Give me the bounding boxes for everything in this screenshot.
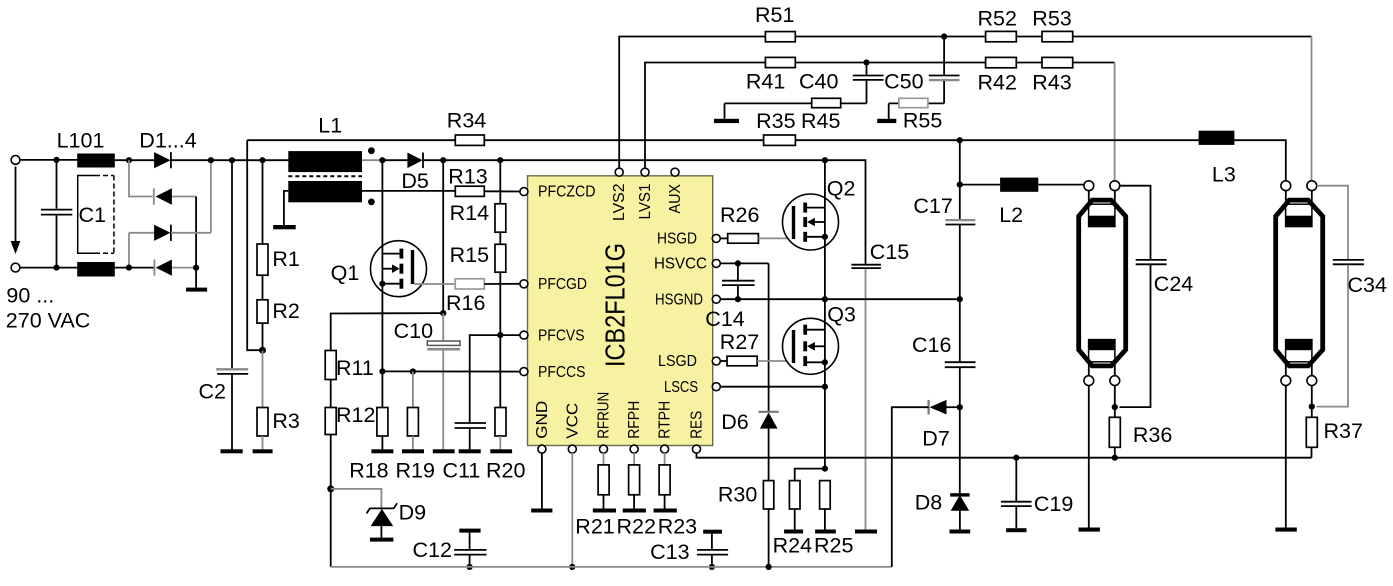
label L101 [57, 129, 105, 153]
svg-text:R1: R1 [272, 247, 299, 271]
svg-text:R22: R22 [617, 514, 656, 538]
svg-text:RES: RES [689, 411, 706, 439]
wire R53 to lamp2 [1311, 37, 1313, 181]
svg-text:L101: L101 [57, 129, 105, 153]
pin HSVCC [654, 256, 720, 273]
resistor R20 [486, 335, 525, 482]
svg-text:D8: D8 [915, 490, 943, 514]
ground R3 [253, 449, 273, 453]
lamp LA2 pins [1281, 181, 1317, 386]
svg-text:HSVCC: HSVCC [654, 256, 707, 273]
wire top rail input [20, 159, 78, 161]
svg-text:LVS1: LVS1 [637, 183, 654, 219]
wire bridge top [115, 159, 154, 161]
svg-text:C19: C19 [1034, 492, 1073, 516]
capacitor C34 [1317, 186, 1387, 407]
svg-text:VCC: VCC [564, 403, 581, 439]
voltage arrow [11, 167, 21, 255]
svg-text:R16: R16 [446, 291, 485, 315]
resistor R41 [746, 57, 795, 93]
capacitor C40 [799, 63, 884, 104]
svg-text:C40: C40 [799, 70, 838, 94]
resistor R24 [773, 469, 825, 558]
pin AUX [667, 168, 684, 213]
wire riser D3 up [208, 157, 214, 233]
wire lamp2 left pin ground [1275, 386, 1296, 532]
pin LVS1 [637, 168, 654, 219]
svg-text:Q2: Q2 [827, 176, 856, 200]
resistor R36 [1109, 386, 1172, 461]
resistor R45 [725, 98, 867, 133]
svg-text:C17: C17 [913, 194, 952, 218]
wire L1 aux to R13 [362, 190, 455, 192]
svg-text:RFPH: RFPH [626, 401, 643, 439]
node C1 bottom [53, 265, 59, 271]
resistor R55 [889, 98, 944, 132]
node C2 tap [229, 157, 235, 163]
lamp LA1 filament top [1089, 191, 1115, 227]
resistor R16 [414, 279, 521, 315]
svg-text:90 ...: 90 ... [6, 284, 54, 308]
resistor R43 [1032, 57, 1072, 94]
svg-text:PFCZCD: PFCZCD [538, 184, 596, 201]
svg-text:D1...4: D1...4 [139, 129, 196, 153]
svg-text:C12: C12 [413, 538, 452, 562]
node bus R14 drop [497, 157, 503, 163]
svg-text:ICB2FL01G: ICB2FL01G [600, 243, 631, 367]
svg-text:C14: C14 [705, 307, 744, 331]
svg-text:R11: R11 [336, 356, 374, 380]
node L2 tap [957, 182, 963, 188]
capacitor C11 [443, 335, 501, 482]
node R2 R3 junction [259, 347, 266, 354]
svg-text:R13: R13 [448, 165, 487, 189]
svg-text:R30: R30 [718, 482, 757, 506]
svg-text:C34: C34 [1348, 273, 1387, 297]
svg-text:D5: D5 [401, 169, 429, 193]
capacitor C10 [394, 313, 461, 449]
svg-text:R18: R18 [349, 458, 388, 482]
svg-text:R24: R24 [773, 533, 812, 557]
ground C2 [221, 449, 243, 453]
wire H2 left drop [247, 140, 262, 350]
wire LVS2 riser [619, 37, 1311, 169]
resistor R18 [349, 371, 393, 482]
diode D8 [915, 407, 971, 533]
node R1 tap [259, 157, 265, 163]
pin RTPH [657, 401, 674, 453]
wire RES bus [697, 453, 1312, 458]
svg-text:R15: R15 [450, 243, 489, 267]
capacitor C2 [199, 160, 249, 449]
lamp LA2 filament bottom [1286, 340, 1312, 376]
wire D2 anode down [195, 197, 197, 268]
svg-text:R42: R42 [978, 71, 1017, 95]
svg-text:LVS2: LVS2 [611, 183, 628, 221]
diode D5 [380, 153, 429, 194]
label D1...4 [139, 129, 196, 153]
diode D1 [154, 152, 171, 168]
svg-text:C2: C2 [199, 380, 226, 404]
pin LSCS [664, 379, 720, 396]
node Q1 drain [379, 157, 385, 163]
svg-text:R55: R55 [903, 108, 942, 132]
svg-text:R37: R37 [1324, 419, 1363, 443]
pin GND [534, 401, 551, 453]
wire VCC bottom rail [331, 566, 892, 568]
resistor R15 [450, 232, 506, 335]
node PFCVS [497, 332, 521, 338]
lamp LA2 tube [1276, 200, 1323, 366]
svg-text:C10: C10 [394, 319, 433, 343]
resistor R52 [978, 7, 1017, 42]
svg-text:270 VAC: 270 VAC [6, 309, 90, 333]
pin PFCCS [520, 364, 586, 381]
resistor R51 [755, 3, 795, 42]
svg-text:HSGND: HSGND [655, 291, 703, 308]
ground R45 [714, 103, 739, 123]
wire riser D2 [129, 160, 153, 196]
L1 phase dot bottom [368, 199, 375, 206]
svg-text:RFRUN: RFRUN [596, 392, 613, 439]
diode D6 [721, 410, 779, 481]
node C1 top [53, 157, 59, 163]
node LSCS sense [822, 466, 828, 472]
wire LSCS [720, 384, 828, 390]
resistor R23 [654, 453, 698, 539]
svg-text:C24: C24 [1154, 272, 1193, 296]
svg-text:L3: L3 [1212, 163, 1236, 187]
capacitor C16 [912, 299, 976, 407]
svg-text:R35: R35 [756, 109, 795, 133]
svg-text:PFCGD: PFCGD [538, 276, 587, 293]
svg-text:RTPH: RTPH [657, 401, 674, 439]
ground L1 aux [273, 191, 296, 229]
svg-text:L2: L2 [999, 203, 1023, 227]
lamp LA2 filament top [1286, 191, 1312, 227]
zener diode D9 [331, 489, 426, 542]
svg-text:D6: D6 [721, 410, 749, 434]
wire R43 to lamp1 [1114, 63, 1116, 181]
svg-text:C15: C15 [870, 240, 909, 264]
L1 phase dot top [368, 147, 375, 154]
wire lamp1 left pin ground [1079, 386, 1100, 532]
wire R11 to C10 [331, 313, 444, 350]
pin PFCZCD [520, 184, 596, 201]
resistor R34 [447, 109, 486, 146]
node bridge riser1 [126, 157, 132, 163]
capacitor C13 [650, 530, 728, 570]
lamp LA1 filament bottom [1089, 340, 1115, 376]
svg-text:PFCVS: PFCVS [538, 327, 585, 344]
svg-text:R34: R34 [447, 109, 486, 133]
inductor L101 winding top [77, 154, 115, 168]
node C10 top [440, 310, 446, 316]
inductor L3 [960, 131, 1286, 187]
resistor R19 [396, 372, 435, 483]
C1 dashed box [78, 176, 114, 254]
node R19 tap [410, 368, 416, 374]
terminal input top [11, 156, 20, 165]
wire bottom rail input [20, 267, 155, 269]
svg-text:AUX: AUX [667, 184, 684, 214]
wire DC bus rail [423, 159, 825, 161]
inductor L2 [960, 178, 1084, 227]
ground R55 [877, 103, 896, 123]
svg-text:R25: R25 [814, 533, 853, 557]
svg-text:R19: R19 [396, 458, 435, 482]
node C50 tap [941, 33, 947, 39]
pin LVS2 [611, 168, 628, 221]
resistor R30 [718, 481, 774, 570]
resistor R25 [814, 481, 853, 558]
wire HSVCC to D6 [768, 263, 770, 411]
svg-text:C13: C13 [650, 540, 689, 564]
node bus C10 drop [440, 157, 446, 163]
capacitor C19 [1001, 455, 1073, 533]
svg-text:LSGD: LSGD [658, 353, 697, 370]
svg-text:R2: R2 [272, 299, 299, 323]
lamp LA1 pins [1084, 181, 1120, 386]
svg-text:R27: R27 [720, 330, 759, 354]
svg-text:R3: R3 [272, 409, 300, 433]
svg-text:C11: C11 [443, 458, 481, 482]
ground GND pin [531, 453, 552, 513]
svg-text:GND: GND [534, 401, 551, 439]
terminal input bottom [11, 263, 20, 272]
pin PFCVS [520, 327, 585, 344]
transistor Q1 [331, 160, 427, 371]
svg-text:C1: C1 [79, 203, 106, 227]
capacitor C24 [1120, 186, 1194, 407]
ground C10 [433, 449, 455, 453]
pin VCC [564, 403, 581, 453]
svg-text:R43: R43 [1032, 71, 1071, 95]
inductor L1 [288, 114, 380, 203]
svg-text:R45: R45 [801, 109, 840, 133]
svg-text:R20: R20 [486, 458, 525, 482]
svg-text:R14: R14 [450, 201, 489, 225]
pin PFCGD [520, 276, 587, 293]
resistor R22 [617, 453, 656, 539]
svg-text:C50: C50 [884, 70, 923, 94]
pin HSGD [657, 231, 720, 248]
svg-text:R41: R41 [746, 70, 785, 94]
svg-text:LSCS: LSCS [664, 379, 698, 396]
diode D2 [154, 188, 196, 204]
svg-text:HSGD: HSGD [657, 231, 697, 248]
resistor R35 [756, 109, 795, 145]
resistor R21 [575, 453, 616, 539]
wire HSGND mid node [720, 296, 963, 302]
transistor Q2 [783, 160, 856, 299]
pin RFRUN [596, 392, 613, 453]
resistor R11 [325, 351, 374, 381]
node D9 tap [327, 485, 334, 492]
capacitor C12 [413, 529, 487, 570]
resistor R3 [257, 350, 300, 449]
diode D3 [129, 225, 211, 241]
capacitor C14 [705, 263, 754, 331]
wire VCC rail drop [569, 453, 575, 570]
svg-text:PFCCS: PFCCS [538, 364, 586, 381]
svg-text:Q3: Q3 [827, 303, 856, 327]
pin RES [689, 411, 706, 453]
resistor R37 [1306, 386, 1363, 458]
svg-text:R21: R21 [575, 514, 614, 538]
resistor R53 [1032, 7, 1072, 42]
resistor R26 [720, 203, 792, 243]
wire riser D3 [126, 233, 132, 271]
lamp LA1 tube [1079, 200, 1126, 366]
resistor R12 [325, 380, 375, 567]
node C40 tap [863, 59, 869, 65]
resistor R1 [257, 160, 300, 275]
pin HSGND [655, 291, 720, 308]
svg-text:Q1: Q1 [331, 261, 360, 285]
resistor R14 [450, 160, 506, 232]
svg-text:R53: R53 [1032, 7, 1071, 31]
wire PFCCS [382, 370, 521, 372]
svg-text:R52: R52 [978, 7, 1017, 31]
pin LSGD [658, 353, 720, 370]
resistor R13 [448, 165, 521, 197]
svg-text:R51: R51 [755, 3, 794, 27]
wire LVS1 riser [645, 63, 1115, 169]
node Q2 drain [822, 157, 828, 163]
svg-text:R23: R23 [658, 514, 697, 538]
diode D7 [892, 400, 963, 567]
capacitor C17 [913, 137, 975, 299]
op-amp U1 IC ICB2FL01G body [528, 176, 713, 446]
wire H2 feedback line [247, 139, 960, 141]
diode D4 [154, 260, 199, 276]
svg-text:C16: C16 [912, 333, 951, 357]
capacitor C15 [825, 160, 909, 533]
wire bus to C10 vertical [442, 160, 444, 313]
resistor R42 [978, 57, 1017, 94]
label 90 ... 270 VAC [6, 284, 90, 333]
ground bridge [186, 268, 207, 292]
inductor L101 winding bottom [77, 262, 115, 277]
wire bridge out [171, 159, 290, 161]
resistor R2 [257, 275, 300, 350]
wire HSVCC [720, 260, 769, 266]
svg-text:R36: R36 [1133, 423, 1172, 447]
svg-text:L1: L1 [318, 114, 342, 138]
capacitor C1 [41, 160, 106, 268]
svg-text:R26: R26 [720, 203, 759, 227]
resistor R27 [720, 330, 792, 366]
svg-text:R12: R12 [336, 403, 375, 427]
svg-text:D7: D7 [922, 426, 949, 450]
svg-text:D9: D9 [399, 501, 426, 525]
pin RFPH [626, 401, 643, 453]
transistor Q3 [783, 299, 856, 468]
node Q1 source sense [379, 368, 385, 374]
capacitor C50 [884, 37, 959, 104]
